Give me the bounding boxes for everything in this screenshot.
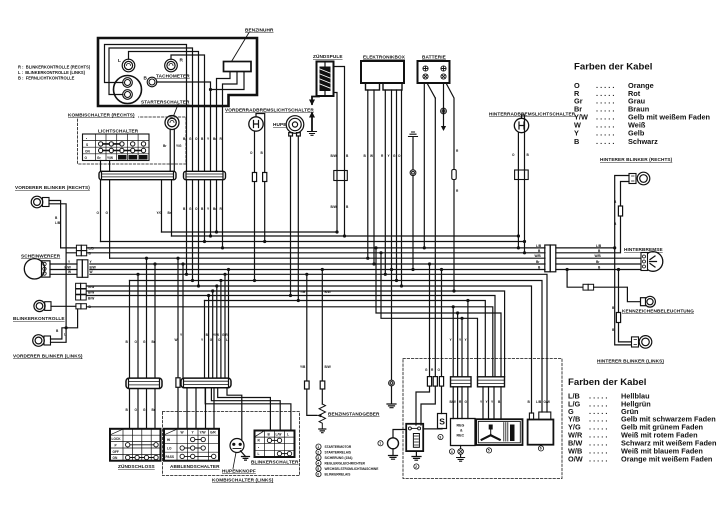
wire bar A feed 1 [452, 307, 454, 377]
labels coil wires [331, 154, 350, 209]
labels battery fuse wire R [456, 149, 459, 193]
rear left turn signal lamp [632, 336, 652, 349]
svg-text:W: W [370, 154, 373, 158]
svg-text:3: 3 [439, 435, 441, 439]
wire kombischalter extra w8 [182, 264, 184, 378]
svg-text:W: W [68, 270, 71, 274]
abblendschalter header labels [181, 430, 217, 434]
starter motor [388, 438, 399, 449]
svg-text:LICHTSCHALTER: LICHTSCHALTER [98, 129, 139, 134]
regulator rectifier box [451, 419, 476, 446]
svg-text:R: R [180, 58, 184, 63]
wires bar A to regulator [453, 387, 468, 419]
wire rear brake switch 1 [517, 132, 519, 248]
battery terminals [423, 66, 446, 79]
svg-text:6: 6 [540, 447, 542, 451]
indicator lamp B (fernlicht) [147, 77, 157, 87]
svg-text:SCHEINWERFER: SCHEINWERFER [21, 254, 61, 259]
svg-text:TACHOMETER: TACHOMETER [156, 74, 190, 79]
ground of earth bullet wire [387, 386, 396, 408]
bus line L16 loop to connector bar B [381, 253, 478, 377]
svg-text:SICHERUNG (15A): SICHERUNG (15A) [325, 456, 353, 460]
wire horn 2 to blinker switch [297, 136, 299, 301]
rear harness connector bank [545, 245, 556, 272]
ground battery (arrow) [441, 126, 446, 131]
wire rear left blinker ground [615, 248, 632, 345]
svg-text:O/W: O/W [568, 455, 583, 464]
svg-text:HINTERBREMSE: HINTERBREMSE [624, 247, 663, 252]
wire instrument bundle 1 [186, 107, 188, 274]
connector bar B [478, 377, 505, 387]
svg-text:Farben der Kabel: Farben der Kabel [568, 377, 646, 388]
svg-text:O/W: O/W [544, 400, 550, 404]
wire ignition coil secondary [334, 93, 338, 233]
svg-text:3: 3 [317, 456, 319, 460]
wire fuse feed a [416, 264, 430, 425]
blinkerschalter contacts [267, 438, 291, 456]
svg-text:L: L [226, 338, 228, 342]
svg-text:BLINKERSCHALTER: BLINKERSCHALTER [251, 460, 299, 465]
svg-text:2: 2 [415, 465, 417, 469]
wire kennzeichen branch [567, 270, 583, 288]
labels starter switch wires [157, 144, 183, 215]
svg-text:STARTERMOTOR: STARTERMOTOR [325, 445, 352, 449]
headlight lamp [24, 259, 50, 279]
wire front left blinker signal [51, 328, 67, 343]
wire cluster interior 2 [109, 48, 193, 107]
wire front right blinker ground [49, 204, 66, 328]
marker 6 [538, 446, 543, 451]
wire battery 2 diagonal [427, 83, 435, 98]
loom bar kombischalter links [181, 378, 231, 388]
labels kombischalter bundle [175, 333, 229, 342]
bus line L0 [162, 231, 338, 233]
wires bar B to alternator [483, 387, 501, 419]
wire front right blinker signal [49, 201, 61, 248]
fuse b [433, 377, 437, 387]
svg-text:B/W: B/W [331, 154, 337, 158]
labels rear brake wires [512, 153, 530, 157]
svg-text:L : BLINKERKONTROLLE (LINKS): L : BLINKERKONTROLLE (LINKS) [18, 70, 86, 75]
starter switch [165, 116, 179, 130]
svg-text:VORDERER BLINKER (LINKS): VORDERER BLINKER (LINKS) [13, 354, 83, 359]
wires bar to abblendschalter [187, 388, 214, 429]
wire bar A feed 3 [461, 318, 463, 377]
wire ignition switch feed 3 [146, 258, 148, 429]
svg-text:6: 6 [317, 472, 319, 476]
svg-text:HI: HI [167, 438, 170, 442]
zuendschloss row labels [112, 437, 122, 460]
bus line L1 [172, 235, 519, 237]
wire instrument bundle 5 [210, 107, 212, 236]
wire battery negative to ground [443, 83, 445, 126]
svg-text:REC: REC [457, 434, 465, 438]
labels brake switch wires [250, 151, 264, 155]
wire ignition coil primary [334, 67, 345, 237]
svg-text:5: 5 [488, 449, 490, 453]
bus line L6 [90, 263, 545, 265]
fuse kombischalter feed [176, 378, 180, 388]
svg-text:L/B: L/B [536, 400, 542, 404]
blinkerschalter header labels [268, 432, 290, 436]
svg-text:L: L [258, 452, 260, 456]
wire cluster interior 3 (lamp L) [129, 52, 199, 108]
svg-text:R : BLINKERKONTROLLE (RECHTS): R : BLINKERKONTROLLE (RECHTS) [18, 65, 91, 70]
wire kombischalter links bundle w1 [204, 301, 206, 379]
wire benzinuhr b [223, 72, 238, 107]
kombischalter rechts dashed enclosure [78, 117, 187, 164]
svg-text:L/B: L/B [536, 244, 542, 248]
svg-text:B/W: B/W [325, 365, 331, 369]
loom bar ignition switch [126, 378, 162, 388]
connector pair front blinker (2x) [76, 245, 86, 256]
lichtschalter contacts [99, 142, 146, 153]
svg-text:KOMBISCHALTER (RECHTS): KOMBISCHALTER (RECHTS) [68, 113, 135, 118]
wire fuel gauge sender 1 [307, 274, 317, 415]
svg-text:OFF: OFF [113, 450, 119, 454]
svg-text:W: W [175, 338, 178, 342]
labels fuse wire [612, 306, 615, 332]
wire kombischalter links bundle w6 [224, 274, 226, 378]
loom bar top B [184, 171, 226, 179]
connector rear brake wires [515, 170, 529, 180]
marker 5 [486, 448, 491, 453]
wire front left blinker ground [51, 309, 78, 339]
wire hupenknopf feed [227, 388, 242, 440]
legend Farben der Kabel (top right) [574, 62, 711, 147]
marker 3 [438, 434, 443, 439]
bus line L4 [87, 252, 545, 254]
wire fuse feed c [441, 270, 443, 414]
ignition switch table ZUENDSCHLOSS [110, 429, 161, 461]
blinker indicator lamp [34, 300, 51, 311]
svg-text:L/W: L/W [276, 432, 282, 436]
svg-text:PASS: PASS [166, 455, 174, 459]
wire cluster interior 4 (lamp R) [171, 55, 205, 107]
svg-text:Y/W: Y/W [200, 430, 206, 434]
wire abblend fused feed [177, 258, 179, 429]
svg-text:Y/G: Y/G [176, 144, 182, 148]
wire instrument bundle 6 [216, 107, 218, 232]
horn [286, 116, 304, 136]
connector bullet starter wire [389, 380, 395, 386]
bus line L12 to connector bar B [87, 296, 495, 377]
svg-text:WECHSELSTROMLICHTMASCHINE: WECHSELSTROMLICHTMASCHINE [325, 467, 379, 471]
wire lichtschalter O [100, 161, 102, 242]
labels connector L/B B [89, 246, 95, 255]
legend key R/L/B top-left [18, 65, 91, 81]
wire blinkerschalter feed 2 from bar [211, 388, 280, 431]
junction dots rear [566, 246, 621, 271]
junction left blinker ground [65, 326, 68, 329]
chassis earth wire [412, 137, 414, 270]
bus line L8 turning down to flasher relay [90, 274, 547, 412]
wire starter switch 2 [172, 129, 175, 236]
label wire L/B,B pair [55, 216, 61, 225]
bus line L14 to connector bar B [87, 307, 493, 377]
bus line L10 to flasher relay [87, 286, 532, 413]
wire relay to fuse box [423, 428, 442, 430]
svg-text:REG: REG [457, 424, 465, 428]
connector fuel sender 2 [320, 381, 325, 389]
svg-text:BLINKERKONTROLLE: BLINKERKONTROLLE [13, 316, 65, 321]
HT lead with spark gap [309, 97, 319, 132]
front left turn signal lamp [33, 335, 51, 347]
wire kombischalter links bundle w7 [228, 270, 230, 379]
bus line L2 [101, 241, 525, 243]
svg-text:B/W: B/W [88, 296, 94, 300]
svg-text:LOCK: LOCK [112, 437, 122, 441]
ground hupenknopf [242, 457, 250, 461]
fuse front brake wire 2 [263, 173, 267, 182]
dimmer switch table ABBLENDSCHALTER [164, 429, 219, 461]
indicator lamp L [122, 59, 135, 72]
svg-text:ABBLENDSCHALTER: ABBLENDSCHALTER [170, 464, 220, 469]
labels rear lines right of bank [595, 244, 602, 270]
fuse a [427, 377, 431, 387]
svg-text:S: S [86, 143, 88, 147]
lichtschalter row labels [85, 136, 114, 160]
wire front brake switch 1 [254, 131, 256, 280]
light switch table LICHTSCHALTER [83, 134, 150, 161]
svg-text:ELEKTRONIKBOX: ELEKTRONIKBOX [363, 55, 406, 60]
fuel level sender resistor BENZINSTANDGEBER [317, 404, 326, 429]
rear brake light switch [514, 118, 528, 132]
svg-text:Schwarz: Schwarz [628, 137, 658, 146]
svg-text:ON: ON [85, 150, 90, 154]
connector kennzeichen [583, 284, 594, 290]
abblendschalter row labels [166, 438, 174, 459]
license plate lamp KENNZEICHENBELEUCHTUNG [641, 296, 656, 307]
loom bar top A [99, 171, 176, 179]
wire cluster interior 5 (lamp B) [157, 82, 211, 107]
wire kennzeichen to lamp [594, 287, 641, 302]
fuel gauge BENZINUHR box [224, 62, 252, 72]
wire rear brake switch 2 [522, 115, 525, 253]
wires headlight to connector [50, 264, 77, 274]
labels fuel sender wires [300, 290, 331, 369]
wire horn 1 to blinker switch [290, 136, 292, 296]
horn button HUPENKNOPF [230, 439, 244, 453]
svg-text:Orange mit weißem Faden: Orange mit weißem Faden [621, 455, 713, 464]
labels left blinker wires [56, 329, 66, 337]
labels wires above bars [425, 338, 468, 372]
starter relay [406, 424, 423, 451]
connector blinkerkontrolle [76, 304, 87, 309]
wire blinker into connector [61, 248, 77, 253]
svg-text:ON: ON [113, 456, 118, 460]
svg-text:4: 4 [317, 461, 319, 465]
svg-text:HUPENKNOPF: HUPENKNOPF [222, 469, 256, 474]
speedo bulb 2 [123, 90, 133, 100]
connector bullet earth wire [410, 170, 416, 176]
svg-text:HUPE: HUPE [273, 122, 286, 127]
fuse front brake wire 1 [252, 173, 256, 182]
svg-text:B/Y: B/Y [140, 156, 145, 160]
labels connector row [88, 285, 94, 301]
zuendschloss contacts [126, 443, 159, 460]
label B fuse [614, 200, 617, 226]
labels right of headlight connector [90, 260, 96, 274]
bus line L3 [87, 247, 545, 249]
wire kombischalter links bundle w3 [212, 291, 214, 378]
svg-text:KENNZEICHENBELEUCHTUNG: KENNZEICHENBELEUCHTUNG [622, 309, 694, 314]
wire blinkerschalter feed 1 from bar [205, 388, 291, 431]
wire cluster interior 1 [105, 45, 187, 108]
svg-text:1: 1 [379, 442, 381, 446]
abblendschalter contacts [180, 437, 216, 458]
wire bar A feed 4 [467, 301, 469, 377]
wire starter switch 1 [162, 129, 171, 232]
flasher relay BLINKERRELAIS [528, 412, 554, 445]
svg-text:REGLER/GLEICHRICHTER: REGLER/GLEICHRICHTER [325, 462, 366, 466]
turn signal switch table BLINKERSCHALTER [255, 431, 295, 458]
svg-text:ZÜNDSCHLOSS: ZÜNDSCHLOSS [118, 463, 155, 469]
svg-text:S: S [439, 417, 445, 427]
svg-text:. . . . .: . . . . . [589, 455, 607, 464]
svg-text:VORDERRADBREMSLICHTSCHALTER: VORDERRADBREMSLICHTSCHALTER [225, 108, 314, 113]
dashed enclosure electrics [403, 359, 562, 479]
ground spark plug [308, 132, 317, 136]
svg-text:STARTERSCHALTER: STARTERSCHALTER [141, 100, 190, 105]
wire kombischalter links bundle w2 [208, 296, 210, 379]
svg-text:BLINKERRELAIS: BLINKERRELAIS [325, 473, 351, 477]
regulator ground [457, 446, 465, 462]
bus line L7 [90, 269, 545, 271]
svg-text:B: B [574, 137, 579, 146]
svg-text:L/B: L/B [55, 221, 61, 225]
rear right turn signal lamp [629, 172, 650, 185]
wire blinkerkontrolle to connector [51, 305, 76, 307]
labels elektronik wires [364, 154, 402, 158]
wire hupenknopf ground [241, 451, 246, 457]
labels headlight wires [65, 260, 72, 274]
bus line L13 to connector bar B [205, 301, 486, 377]
svg-text:Y/B: Y/B [300, 365, 306, 369]
svg-text:. . . . .: . . . . . [596, 137, 614, 146]
labels ignition switch wires [126, 340, 156, 412]
svg-text:Y/G: Y/G [157, 211, 163, 215]
svg-text:W: W [90, 270, 93, 274]
svg-text:W: W [181, 430, 184, 434]
junction benzinuhr c [209, 88, 212, 91]
svg-text:Y/B: Y/B [300, 290, 306, 294]
svg-text:G/R: G/R [210, 430, 216, 434]
wire benzinuhr c [211, 72, 245, 90]
svg-text:W/B: W/B [535, 254, 542, 258]
dashed enclosure KOMBISCHALTER (LINKS) [163, 412, 300, 476]
connector bar A [451, 377, 472, 387]
front brake light switch [249, 117, 263, 131]
svg-text:B/W: B/W [90, 265, 96, 269]
wire instrument bundle 3 [198, 107, 200, 286]
svg-text:LO: LO [167, 447, 172, 451]
wire kombischalter links bundle w5 [220, 281, 222, 379]
svg-text:STARTERRELAIS: STARTERRELAIS [325, 451, 352, 455]
marker 2 [414, 464, 419, 469]
fuse rear left blinker [616, 313, 620, 323]
ground starter relay [412, 451, 421, 460]
svg-text:2: 2 [317, 450, 319, 454]
blinkerschalter row labels [258, 439, 261, 456]
fuse c [439, 377, 443, 387]
svg-text:L: L [287, 432, 289, 436]
rear brake/tail lamp [641, 252, 663, 272]
svg-text:Y/W: Y/W [213, 333, 219, 337]
bus line L15 loop to connector bar B [376, 248, 501, 377]
svg-text:&: & [460, 429, 463, 433]
svg-text:ZÜNDSPULE: ZÜNDSPULE [313, 53, 343, 59]
wire tail lamp 1 [556, 257, 641, 259]
bus line L11 to connector bar B [87, 291, 505, 377]
svg-text:BENZINUHR: BENZINUHR [245, 28, 274, 33]
connector bullet battery neg [441, 108, 447, 114]
wire rear left blinker signal (fused) [619, 270, 632, 342]
labels rear lines left of bank [535, 244, 542, 270]
wire benzinuhr a [217, 72, 231, 107]
connector fuel sender 1 [305, 381, 310, 389]
labels instrument bundle [183, 137, 223, 211]
alternator (magneto) box [476, 419, 522, 445]
svg-text:HINTERRADBREMSLICHTSCHALTER: HINTERRADBREMSLICHTSCHALTER [489, 112, 576, 117]
wire tail lamp 2 [556, 263, 641, 265]
wire starter motor to relay [393, 430, 406, 438]
wire ignition switch feed 4 [154, 264, 156, 429]
svg-text:B/W: B/W [331, 205, 337, 209]
svg-text:L: L [64, 333, 66, 337]
fuse rear right blinker [618, 206, 622, 216]
speedo bulb 1 [123, 78, 133, 88]
wires electronic box [368, 90, 402, 286]
earth hatch symbol [409, 132, 418, 137]
marker 1 [378, 441, 383, 446]
numbered device legend [316, 444, 321, 477]
svg-text:L: L [118, 58, 121, 63]
svg-text:B: B [144, 76, 148, 81]
ground starter motor [389, 449, 398, 459]
svg-text:B : FERNLICHTKONTROLLE: B : FERNLICHTKONTROLLE [18, 76, 75, 81]
bus line L9 from ignition switch wire, to flasher relay [130, 281, 543, 413]
headlight connector 3-pole [77, 260, 88, 278]
wire starter motor feed [391, 270, 393, 387]
wire instrument bundle 2 [192, 107, 194, 281]
ignition coil [317, 62, 334, 97]
wire rear right blinker ground [556, 182, 629, 253]
labels wires above boxes [450, 400, 550, 404]
wire instrument bundle 7 [222, 107, 224, 248]
svg-text:5: 5 [317, 467, 319, 471]
wire tail lamp 3 [556, 269, 641, 271]
svg-text:HINTERER BLINKER (LINKS): HINTERER BLINKER (LINKS) [597, 359, 664, 364]
indicator lamp R [165, 59, 178, 72]
wire instrument bundle 4 [204, 107, 206, 242]
svg-text:HINTERER BLINKER (RECHTS): HINTERER BLINKER (RECHTS) [600, 157, 673, 162]
front right turn signal lamp [31, 196, 49, 208]
bus line L5 [110, 257, 545, 259]
wire battery 1 [423, 83, 425, 248]
wire kombischalter links bundle w4 [216, 286, 218, 378]
svg-text:B/W: B/W [450, 400, 456, 404]
fuse main (battery) [452, 170, 456, 180]
legend Farben der Kabel (bottom right) [568, 377, 717, 464]
connector ignition coil wires [334, 171, 348, 181]
svg-text:B/W: B/W [119, 156, 125, 160]
fuse box SICHERUNG [438, 414, 447, 429]
svg-text:VORDERER BLINKER (RECHTS): VORDERER BLINKER (RECHTS) [15, 185, 90, 190]
speedometer lamp housing [114, 76, 142, 104]
wire fuel gauge sender 2 [321, 270, 323, 405]
junction dots bus [136, 230, 526, 320]
